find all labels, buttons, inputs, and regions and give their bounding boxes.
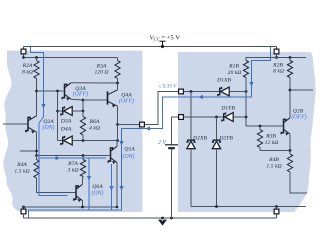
- svg-text:R7A: R7A: [67, 161, 78, 167]
- wire Q4A collector: [117, 83, 119, 90]
- svg-text:R6A: R6A: [89, 119, 100, 125]
- VCC label: [150, 34, 181, 46]
- gate A package region (shaded): [3, 51, 142, 213]
- wire gate A output to gate B input X: [145, 92, 179, 125]
- wire Q5A collector: [116, 141, 118, 147]
- svg-text:D2YB: D2YB: [218, 136, 233, 142]
- transistor Q3A: [62, 83, 71, 101]
- svg-text:8 kΩ: 8 kΩ: [22, 69, 33, 75]
- output pin square gate A: [140, 122, 145, 127]
- transistor Q6A: [74, 184, 83, 202]
- svg-text:(ON): (ON): [92, 189, 104, 196]
- svg-text:D1YB: D1YB: [220, 106, 235, 112]
- wire Q2B base: [246, 125, 283, 128]
- current arrow down at Q5A emitter: [109, 186, 113, 191]
- wire R3B bottom to Q2B emitter: [260, 149, 291, 152]
- gate B package region (shaded): [178, 52, 316, 212]
- ground pin square gate B: [274, 207, 279, 219]
- transistor Q4A: [108, 90, 118, 108]
- VCC rail +5V: [24, 45, 277, 48]
- resistor R2B: [287, 61, 292, 118]
- wire Q4A emitter to output: [116, 106, 119, 126]
- resistor R4A: [34, 156, 76, 193]
- svg-text:D2XB: D2XB: [192, 136, 207, 142]
- wire Q5A emitter: [116, 163, 118, 207]
- svg-text:R2A: R2A: [22, 63, 33, 69]
- svg-text:8 kΩ: 8 kΩ: [273, 69, 284, 75]
- label Q3A (OFF): [73, 86, 88, 97]
- external ground rail: [24, 217, 277, 220]
- wire Q2B emitter: [289, 134, 291, 150]
- svg-text:≤ 0.35 V: ≤ 0.35 V: [158, 84, 177, 90]
- label Q5A (ON): [123, 146, 136, 160]
- current path Q5A emitter to ground: [111, 164, 113, 210]
- label D4A: [60, 127, 72, 133]
- wire input X line: [184, 90, 220, 93]
- stub wire R2B node to torn edge: [290, 89, 313, 91]
- svg-text:(OFF): (OFF): [291, 114, 306, 121]
- current arrow right on Q5A base rail: [56, 156, 61, 160]
- svg-text:D4A: D4A: [60, 127, 72, 133]
- resistor R3B: [257, 126, 262, 151]
- output wire gate A: [118, 124, 140, 126]
- label Q4A (OFF): [119, 93, 134, 105]
- diode D3A: [58, 106, 85, 115]
- label Q6A (ON): [92, 184, 104, 196]
- label D2YB: [218, 136, 233, 142]
- wire Q2B collector: [0, 0, 1, 1]
- transistor Q2B: [281, 118, 290, 136]
- current path into Q6A base: [39, 155, 68, 196]
- current arrow down beside R2A: [41, 104, 45, 109]
- 2V source wire lower: [171, 148, 173, 218]
- svg-text:Q2B: Q2B: [293, 108, 304, 114]
- svg-text:120 Ω: 120 Ω: [94, 70, 108, 76]
- label R2A 8k: [22, 63, 33, 75]
- clamp diode D2XB: [186, 92, 195, 207]
- ground pin square gate A: [21, 207, 26, 218]
- wire Q3A emitter to Q4A base node: [71, 99, 84, 102]
- label R6A 4k: [89, 119, 100, 131]
- stub wire at Q2A emitter node: [20, 150, 37, 152]
- svg-text:Q2A: Q2A: [43, 119, 54, 125]
- resistor R1B: [243, 61, 248, 93]
- current arrow down beside R1B: [249, 82, 253, 87]
- label D2XB: [192, 136, 207, 142]
- svg-text:1.5 kΩ: 1.5 kΩ: [14, 169, 29, 175]
- current arrow down at Q5A collector lower: [119, 186, 123, 191]
- transistor Q2A: [3, 116, 37, 134]
- svg-text:R3B: R3B: [265, 134, 276, 140]
- label R4B 1.5k: [266, 157, 281, 170]
- resistor R4B: [287, 151, 307, 194]
- svg-text:R4A: R4A: [16, 162, 27, 168]
- gate B internal VCC rail: [246, 56, 306, 60]
- label R2B 8k: [272, 62, 284, 74]
- svg-text:(ON): (ON): [43, 124, 55, 131]
- VCC pin square gate A: [21, 47, 26, 59]
- gate A internal ground rail: [22, 206, 118, 209]
- clamp diode D2YB: [212, 117, 221, 207]
- node Q2A collector / Q3A base junction: [35, 90, 63, 93]
- label D1YB: [220, 106, 235, 112]
- resistor R3A: [115, 61, 120, 85]
- label R1B 20k: [228, 64, 242, 76]
- battery 2V: [165, 145, 178, 148]
- svg-text:D3A: D3A: [60, 119, 72, 125]
- label output voltage 0.35V: [158, 84, 177, 90]
- svg-text:Q6A: Q6A: [92, 184, 103, 190]
- wire Q3A collector to R3A: [71, 82, 118, 84]
- svg-text:(OFF): (OFF): [119, 97, 134, 104]
- wire Q3A-base-to-diodes vertical: [56, 91, 59, 141]
- diode D1XB: [218, 87, 246, 96]
- current path gate A from VCC through Q2A: [31, 47, 107, 159]
- svg-text:R3A: R3A: [96, 63, 107, 69]
- diode D1YB: [222, 112, 246, 121]
- svg-text:3 kΩ: 3 kΩ: [67, 168, 79, 174]
- current path through R7A into Q6A: [88, 158, 90, 210]
- input pin square X gate B: [179, 89, 184, 94]
- svg-text:D1XB: D1XB: [216, 77, 231, 83]
- wire Q6A emitter to ground: [82, 201, 84, 207]
- gate B internal ground rail: [191, 205, 306, 208]
- wire Q6A collector to R7A: [82, 178, 84, 184]
- gate A internal VCC rail: [24, 56, 118, 60]
- resistor R7A: [80, 156, 85, 179]
- label Q2A (ON): [43, 119, 55, 131]
- svg-text:1.5 kΩ: 1.5 kΩ: [266, 164, 281, 170]
- current arrow left under input X line: [198, 95, 203, 99]
- label 2 V: [158, 140, 168, 146]
- VCC pin square gate B: [274, 47, 279, 59]
- current arrow left entering gate A output: [145, 126, 150, 130]
- label R3A 120ohm: [94, 63, 108, 75]
- label R7A 3k: [67, 161, 79, 174]
- current path sink from gate B through Q5A: [29, 47, 271, 218]
- svg-text:R2B: R2B: [272, 62, 283, 68]
- transistor Q5A: [108, 146, 117, 164]
- svg-text:Q5A: Q5A: [124, 146, 135, 152]
- svg-text:2 V: 2 V: [158, 140, 168, 146]
- wire X node to Y node vertical: [245, 92, 248, 127]
- label R4A 1.5k: [14, 162, 29, 175]
- svg-text:12 kΩ: 12 kΩ: [265, 140, 279, 146]
- svg-text:(OFF): (OFF): [73, 90, 88, 97]
- svg-text:VCC = +5 V: VCC = +5 V: [150, 34, 181, 41]
- wire Q2A emitter vertical: [35, 132, 38, 157]
- wire input Y line: [184, 116, 224, 119]
- label D1XB: [216, 77, 231, 83]
- label Q2B (OFF): [291, 108, 306, 120]
- label D3A: [60, 119, 72, 125]
- wire Q4A base: [83, 100, 107, 111]
- label R3B 12k: [265, 134, 279, 147]
- wire output to Q5A collector: [117, 125, 119, 141]
- svg-text:R1B: R1B: [228, 64, 239, 70]
- resistor R2A: [34, 58, 39, 116]
- diode D4A: [58, 136, 119, 145]
- svg-text:20 kΩ: 20 kΩ: [228, 70, 242, 76]
- svg-text:R4B: R4B: [268, 157, 279, 163]
- 2V source wire upper: [172, 117, 182, 145]
- svg-text:4 kΩ: 4 kΩ: [89, 125, 100, 131]
- input pin square Y gate B: [179, 115, 184, 120]
- current arrow down beside R7A: [87, 176, 91, 181]
- ground symbol: [158, 220, 167, 226]
- resistor R6A: [80, 111, 85, 141]
- svg-text:(ON): (ON): [123, 153, 135, 160]
- wire Q5A base rail: [37, 154, 110, 157]
- current arrow down at Q5A collector: [119, 141, 123, 146]
